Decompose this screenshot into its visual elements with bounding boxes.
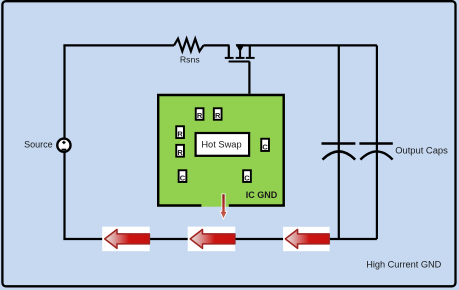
svg-text:Hot Swap: Hot Swap	[201, 140, 241, 150]
svg-text:Source: Source	[24, 140, 53, 150]
svg-text:R: R	[215, 111, 221, 120]
svg-text:High Current GND: High Current GND	[366, 260, 441, 270]
svg-text:C: C	[180, 173, 186, 182]
svg-text:Output Caps: Output Caps	[395, 144, 448, 155]
svg-text:C: C	[244, 173, 250, 182]
svg-text:Rsns: Rsns	[180, 54, 200, 64]
svg-text:R: R	[197, 111, 203, 120]
svg-text:R: R	[177, 148, 183, 157]
svg-text:C: C	[262, 142, 268, 151]
svg-text:R: R	[177, 129, 183, 138]
svg-text:IC GND: IC GND	[246, 190, 278, 200]
